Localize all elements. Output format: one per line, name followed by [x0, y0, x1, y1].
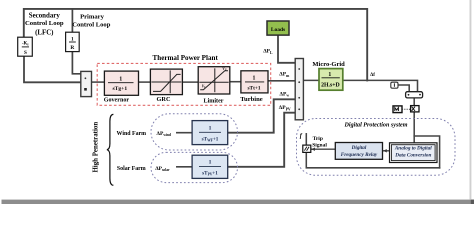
svg-text:1: 1	[209, 125, 212, 131]
svg-text:1: 1	[328, 72, 331, 78]
svg-text:ΔPPV: ΔPPV	[279, 105, 291, 111]
svg-text:sTg+1: sTg+1	[112, 86, 127, 92]
svg-text:1: 1	[209, 160, 212, 166]
svg-text:ΔPL: ΔPL	[263, 49, 273, 55]
svg-text:Δf: Δf	[370, 73, 375, 78]
svg-text:Governor: Governor	[104, 98, 130, 104]
svg-text:Primary: Primary	[80, 13, 105, 20]
svg-text:Solar Farm: Solar Farm	[117, 166, 146, 172]
svg-text:1: 1	[119, 76, 122, 82]
svg-text:High Penetration: High Penetration	[92, 122, 99, 173]
svg-text:1: 1	[253, 76, 256, 82]
svg-text:Digital Protection system: Digital Protection system	[344, 123, 408, 129]
svg-text:S: S	[24, 50, 27, 56]
svg-text:ΔPw: ΔPw	[280, 91, 290, 97]
svg-text:Signal: Signal	[312, 142, 327, 148]
svg-text:Trip: Trip	[313, 136, 323, 142]
svg-text:Limiter: Limiter	[204, 98, 224, 104]
svg-text:sTt+1: sTt+1	[247, 86, 260, 92]
svg-text:Wind Farm: Wind Farm	[117, 131, 147, 137]
svg-text:GRC: GRC	[157, 96, 171, 103]
svg-text:1: 1	[71, 36, 74, 42]
svg-text:Digital: Digital	[351, 145, 367, 151]
svg-text:Secondary: Secondary	[29, 12, 61, 19]
svg-text:Thermal Power Plant: Thermal Power Plant	[153, 54, 219, 62]
svg-text:R: R	[70, 45, 74, 51]
svg-text:Control Loop: Control Loop	[25, 20, 64, 27]
svg-text:Control Loop: Control Loop	[72, 22, 110, 29]
svg-text:2H.s+D: 2H.s+D	[321, 83, 340, 89]
svg-text:f: f	[300, 132, 303, 139]
svg-text:-KI: -KI	[22, 42, 29, 47]
svg-text:ΔPsolar: ΔPsolar	[155, 166, 170, 172]
svg-text:ΔPm: ΔPm	[279, 72, 290, 78]
svg-text:Turbine: Turbine	[240, 96, 263, 103]
svg-text:Frequency Relay: Frequency Relay	[341, 152, 378, 158]
svg-text:Analog to Digital: Analog to Digital	[394, 146, 432, 152]
svg-text:Loads: Loads	[271, 27, 285, 33]
svg-text:Micro-Grid: Micro-Grid	[312, 61, 345, 68]
svg-text:(LFC): (LFC)	[35, 29, 53, 36]
svg-text:Data Conversion: Data Conversion	[394, 152, 431, 158]
svg-text:ΔPwind: ΔPwind	[157, 131, 171, 137]
